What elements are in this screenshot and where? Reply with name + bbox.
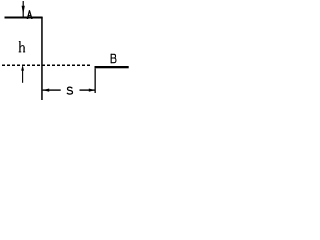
surface A top line: [5, 17, 43, 19]
dashed reference line: [2, 64, 92, 66]
s dimension right segment: [80, 89, 95, 90]
label B: [111, 54, 116, 63]
arrow h head (up): [21, 65, 24, 71]
arrow A head (down): [22, 6, 25, 15]
arrow A shaft: [23, 1, 24, 17]
arrow h shaft: [22, 68, 23, 83]
label A: [27, 10, 33, 19]
s dimension right arrowhead: [89, 89, 95, 92]
step edge vertical line: [41, 17, 43, 100]
surface B line: [95, 66, 129, 68]
s dimension left segment: [43, 89, 61, 90]
label s: [67, 87, 73, 94]
extension line below B: [95, 68, 96, 93]
label h: [19, 41, 26, 52]
s dimension left arrowhead: [43, 89, 49, 92]
